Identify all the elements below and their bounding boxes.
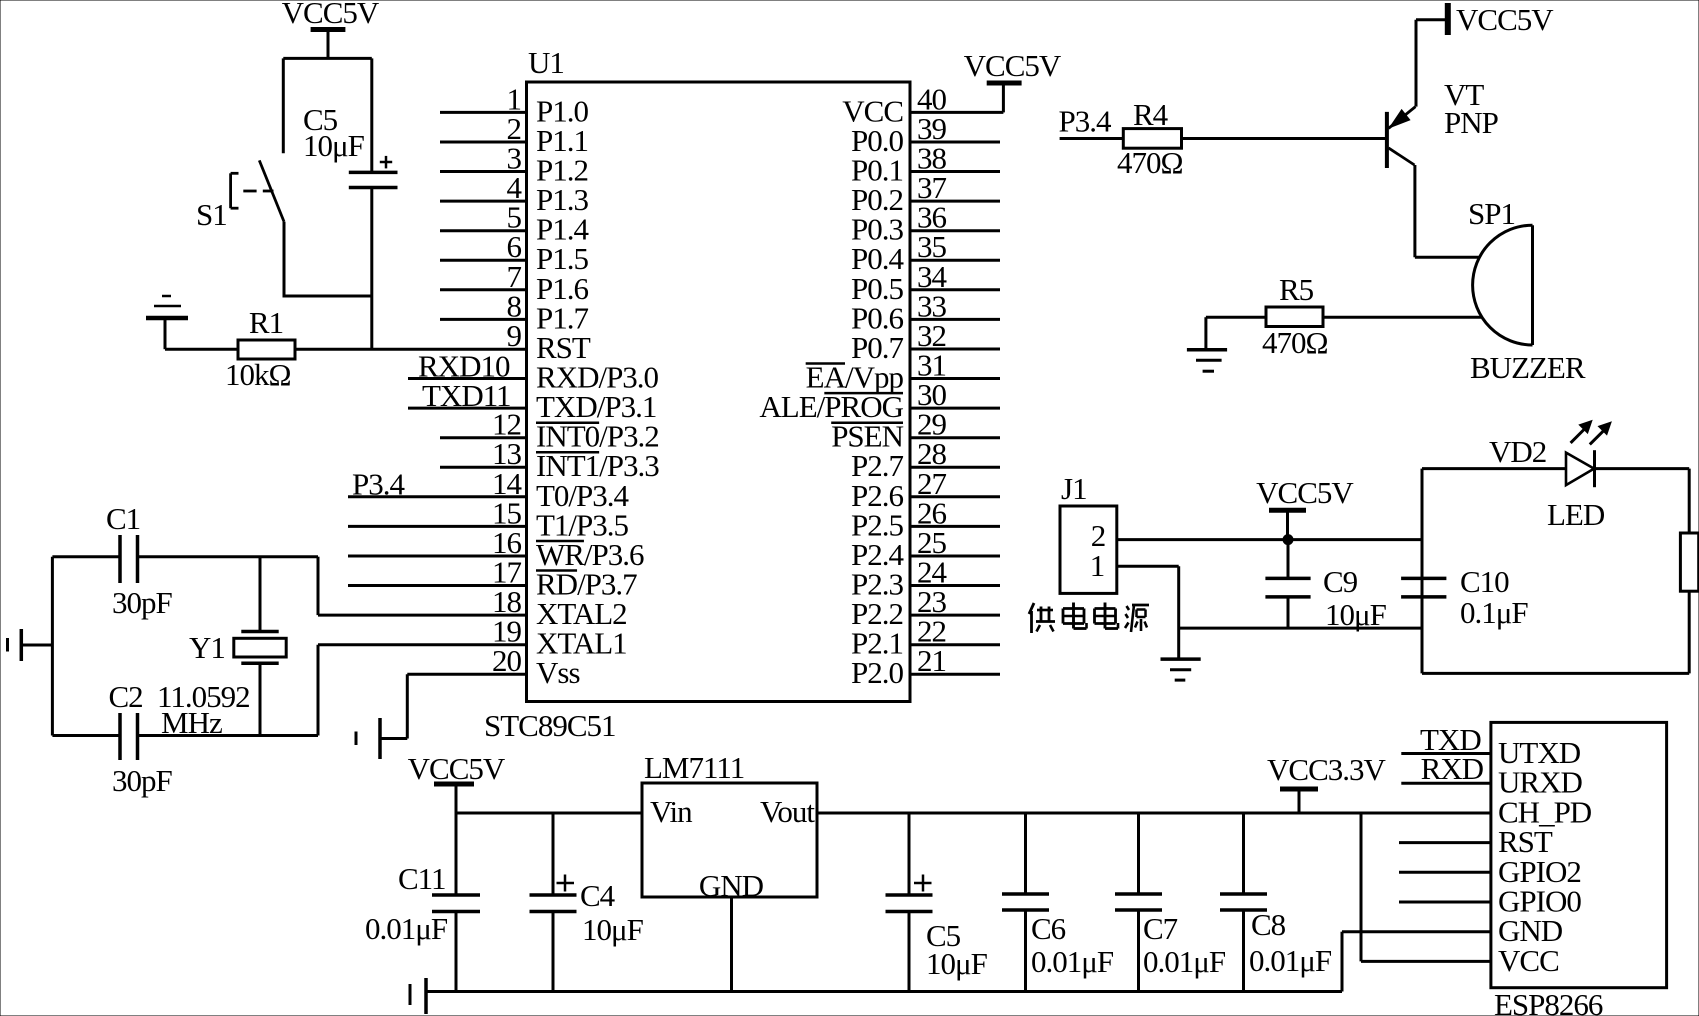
svg-text:Y1: Y1 bbox=[189, 630, 225, 665]
svg-text:0.1μF: 0.1μF bbox=[1460, 595, 1528, 630]
svg-text:1: 1 bbox=[1090, 548, 1105, 583]
svg-text:MHz: MHz bbox=[161, 705, 222, 740]
svg-text:C9: C9 bbox=[1323, 564, 1358, 599]
svg-text:LED: LED bbox=[1547, 497, 1605, 532]
svg-text:470Ω: 470Ω bbox=[1117, 145, 1183, 180]
svg-text:R1: R1 bbox=[249, 305, 283, 340]
svg-text:0.01μF: 0.01μF bbox=[1143, 944, 1226, 979]
svg-text:VCC5V: VCC5V bbox=[1256, 475, 1354, 510]
svg-text:20: 20 bbox=[492, 643, 522, 678]
svg-text:10μF: 10μF bbox=[1325, 597, 1387, 632]
svg-text:C7: C7 bbox=[1143, 911, 1178, 946]
svg-text:LM7111: LM7111 bbox=[644, 750, 744, 785]
svg-text:ESP8266: ESP8266 bbox=[1494, 987, 1603, 1016]
svg-text:C2: C2 bbox=[109, 679, 143, 714]
svg-text:VD2: VD2 bbox=[1489, 434, 1546, 469]
svg-text:STC89C51: STC89C51 bbox=[484, 708, 616, 743]
svg-text:RXD: RXD bbox=[1421, 751, 1484, 786]
svg-text:Vss: Vss bbox=[536, 655, 580, 690]
svg-text:P3.4: P3.4 bbox=[1059, 104, 1112, 139]
svg-text:R5: R5 bbox=[1279, 272, 1314, 307]
svg-text:C11: C11 bbox=[398, 861, 446, 896]
svg-text:10μF: 10μF bbox=[926, 946, 988, 981]
svg-text:0.01μF: 0.01μF bbox=[365, 911, 448, 946]
svg-text:P2.0: P2.0 bbox=[851, 655, 903, 690]
svg-text:10μF: 10μF bbox=[582, 912, 644, 947]
svg-text:30pF: 30pF bbox=[112, 763, 173, 798]
svg-text:10kΩ: 10kΩ bbox=[225, 357, 291, 392]
svg-text:C1: C1 bbox=[106, 501, 140, 536]
svg-text:C8: C8 bbox=[1251, 907, 1286, 942]
svg-text:VCC5V: VCC5V bbox=[964, 48, 1062, 83]
svg-text:Vin: Vin bbox=[650, 794, 693, 829]
svg-text:C10: C10 bbox=[1460, 564, 1509, 599]
svg-text:VCC: VCC bbox=[1498, 943, 1559, 978]
svg-text:21: 21 bbox=[917, 643, 946, 678]
svg-text:J1: J1 bbox=[1061, 471, 1087, 506]
svg-text:C4: C4 bbox=[580, 878, 616, 913]
svg-text:P3.4: P3.4 bbox=[352, 466, 405, 501]
svg-text:SP1: SP1 bbox=[1468, 196, 1515, 231]
svg-text:0.01μF: 0.01μF bbox=[1249, 943, 1332, 978]
svg-text:R4: R4 bbox=[1133, 97, 1169, 132]
svg-text:PNP: PNP bbox=[1444, 105, 1498, 140]
svg-text:BUZZER: BUZZER bbox=[1470, 350, 1586, 385]
svg-text:VCC5V: VCC5V bbox=[1456, 2, 1554, 37]
svg-text:10μF: 10μF bbox=[303, 128, 365, 163]
svg-text:30pF: 30pF bbox=[112, 585, 173, 620]
svg-text:VCC5V: VCC5V bbox=[282, 0, 380, 30]
svg-text:U1: U1 bbox=[528, 45, 564, 80]
svg-text:0.01μF: 0.01μF bbox=[1031, 944, 1114, 979]
svg-text:VCC3.3V: VCC3.3V bbox=[1267, 752, 1386, 787]
svg-text:VCC5V: VCC5V bbox=[408, 751, 506, 786]
svg-text:S1: S1 bbox=[196, 197, 227, 232]
svg-text:TXD11: TXD11 bbox=[422, 378, 511, 413]
svg-text:Vout: Vout bbox=[760, 794, 815, 829]
svg-text:470Ω: 470Ω bbox=[1262, 325, 1328, 360]
svg-text:C6: C6 bbox=[1031, 911, 1066, 946]
